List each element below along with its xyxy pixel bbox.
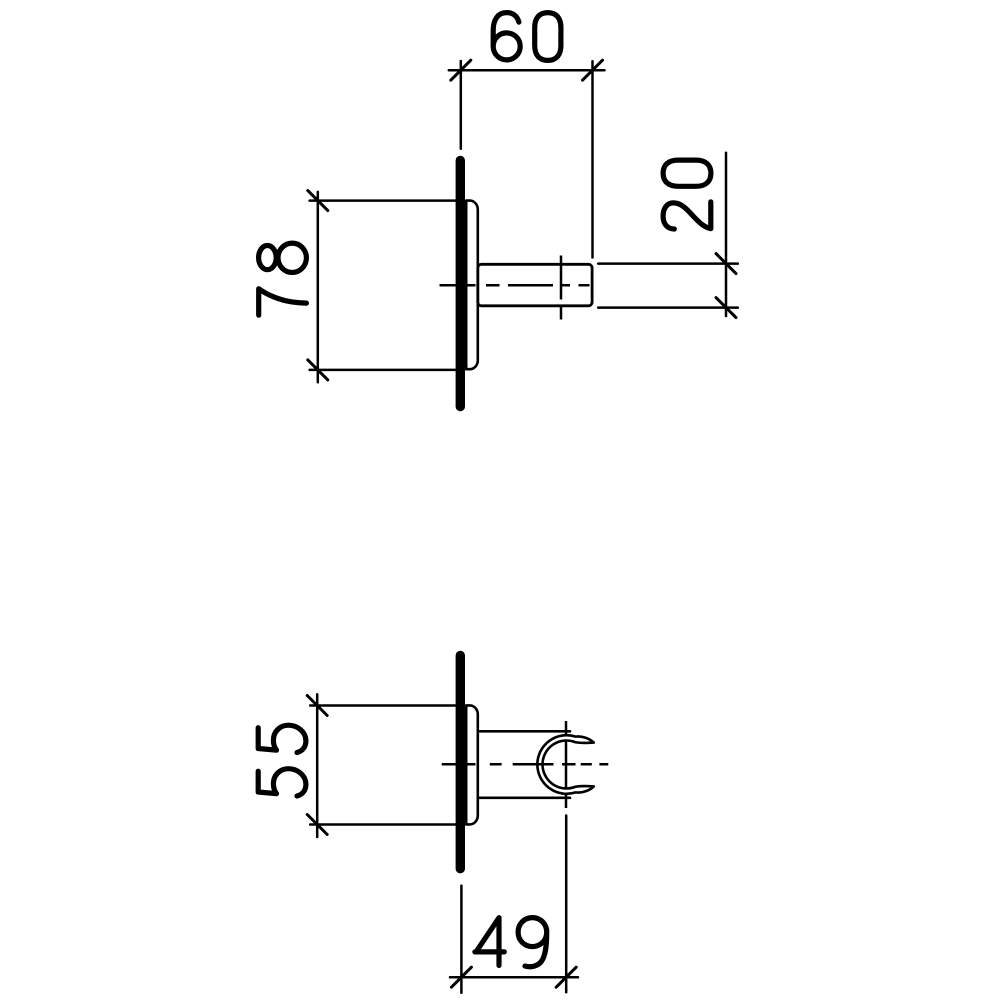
dimension 55: dimension line bbox=[316, 694, 319, 837]
dimension 49: dimension line bbox=[450, 976, 578, 979]
vertical centerline through holder (bottom view) bbox=[565, 721, 568, 808]
escutcheon flange (bottom view) bbox=[466, 705, 478, 824]
dimension 20: tick bottom bbox=[716, 298, 736, 318]
dimension 55: tick bottom bbox=[307, 815, 327, 835]
dimension 49: tick left bbox=[451, 967, 471, 987]
dimension 20: extension lines bbox=[598, 264, 738, 308]
hand shower holder clip (bottom view) bbox=[537, 735, 593, 794]
dimension 49: tick right bbox=[556, 967, 576, 987]
label 60 bbox=[493, 13, 561, 61]
escutcheon flange (top view) bbox=[466, 201, 478, 370]
spout stub (top view) bbox=[478, 264, 592, 306]
vertical centerline at spout end (top view) bbox=[560, 256, 563, 320]
label 55 (rotated) bbox=[258, 725, 306, 796]
dimension 60: tick left bbox=[451, 60, 471, 80]
dimension 60: extension lines bbox=[461, 61, 593, 258]
dimension 20: dimension line bbox=[725, 153, 728, 316]
dimension 20: tick top bbox=[716, 254, 736, 274]
wall line (bottom view) bbox=[456, 656, 465, 869]
holder arm top (bottom view) bbox=[478, 730, 570, 733]
dimension 60: dimension line bbox=[449, 69, 605, 72]
holder arm bottom (bottom view) bbox=[478, 796, 570, 799]
dimension 78: extension lines bbox=[310, 201, 456, 370]
dimension 78: dimension line bbox=[317, 192, 320, 382]
label 78 (rotated) bbox=[259, 243, 307, 315]
dimension 49: extension lines bbox=[461, 816, 566, 993]
dimension 78: tick top bbox=[308, 191, 328, 211]
label 49 bbox=[475, 918, 547, 967]
horizontal centerline (top view) bbox=[440, 284, 590, 287]
dimension 55: tick top bbox=[307, 696, 327, 716]
label 20 (rotated) bbox=[663, 160, 711, 229]
dimension 60: tick right bbox=[583, 60, 603, 80]
horizontal centerline (bottom view) bbox=[442, 763, 609, 766]
wall line (top view) bbox=[456, 161, 465, 407]
dimension 78: tick bottom bbox=[308, 360, 328, 380]
dimension 55: extension lines bbox=[310, 706, 456, 825]
